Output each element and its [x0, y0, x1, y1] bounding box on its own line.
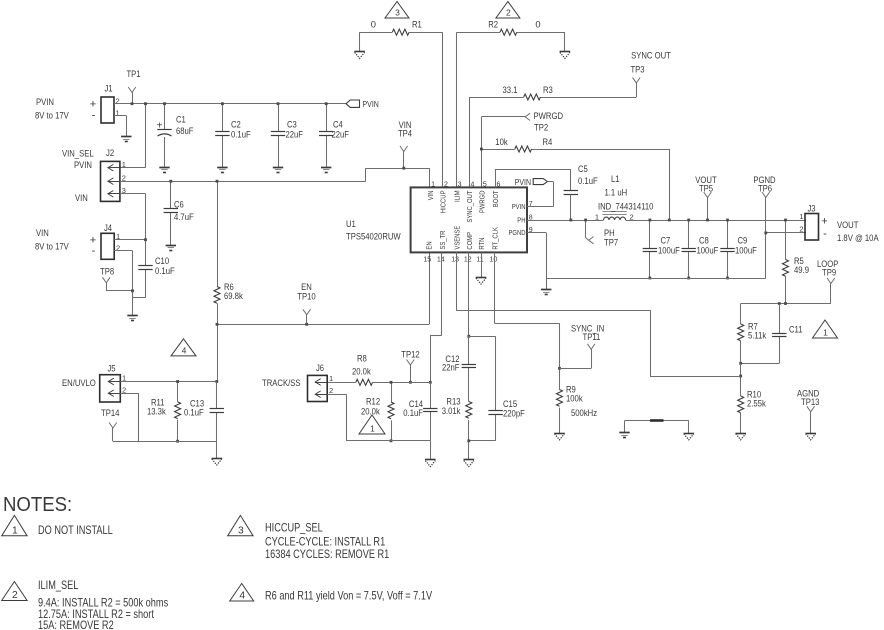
capacitor C15 branch — [469, 336, 496, 441]
svg-text:1.8V @ 10A: 1.8V @ 10A — [837, 232, 879, 243]
svg-text:+: + — [157, 120, 163, 131]
junction R12 bottom — [390, 439, 393, 442]
connector J5 box — [100, 375, 121, 402]
svg-text:1: 1 — [329, 374, 333, 383]
junction C4 — [325, 102, 328, 105]
svg-text:VSENSE: VSENSE — [452, 226, 461, 250]
svg-text:22uF: 22uF — [286, 129, 304, 140]
capacitor C8 plates — [682, 249, 696, 252]
wire R13/C15 bottom row to ground — [469, 441, 496, 460]
svg-text:J3: J3 — [807, 203, 815, 214]
svg-text:22uF: 22uF — [332, 129, 350, 140]
capacitor C3 plates — [271, 132, 285, 136]
svg-text:VIN: VIN — [426, 191, 435, 201]
svg-text:8V to 17V: 8V to 17V — [35, 241, 69, 252]
ground PGND — [541, 290, 551, 295]
svg-text:1: 1 — [431, 181, 435, 188]
svg-text:15: 15 — [423, 257, 431, 264]
ground under R10 — [735, 434, 746, 440]
svg-text:EN: EN — [425, 241, 434, 249]
wire R2 right to ground — [517, 32, 565, 51]
note triangle 4 — [230, 584, 254, 602]
capacitor C4 — [326, 104, 328, 167]
test point TP9 — [827, 278, 835, 304]
junction TP6/J3 pin2 — [764, 232, 767, 235]
test point TP7 — [586, 220, 594, 244]
svg-text:TP1: TP1 — [126, 68, 140, 79]
svg-text:6: 6 — [497, 181, 501, 188]
svg-text:14: 14 — [437, 257, 445, 264]
svg-text:13: 13 — [451, 257, 459, 264]
test point TP8 — [103, 277, 133, 291]
note triangle 3 — [228, 515, 253, 536]
junction C7 top — [649, 219, 652, 222]
svg-text:2: 2 — [12, 590, 18, 601]
svg-text:0: 0 — [371, 19, 376, 30]
wire U1 pin4 to R3 — [469, 97, 524, 187]
svg-text:HICCUP_SEL: HICCUP_SEL — [265, 521, 323, 535]
wire PVIN rail — [114, 103, 346, 105]
resistor R4 — [515, 146, 532, 152]
resistor R5 — [785, 220, 787, 260]
svg-text:-: - — [92, 245, 96, 257]
svg-text:TP9: TP9 — [822, 267, 836, 278]
junction R5 top — [784, 219, 787, 222]
ground under C6 — [166, 246, 176, 251]
svg-text:PVIN: PVIN — [512, 202, 526, 211]
svg-text:TP10: TP10 — [297, 291, 315, 302]
wire R3 to TP3 — [541, 83, 637, 98]
capacitor C7 — [649, 220, 651, 278]
svg-text:-: - — [823, 228, 827, 240]
svg-text:2: 2 — [506, 8, 511, 18]
svg-text:R8: R8 — [357, 353, 367, 364]
ground under R9 — [554, 434, 565, 440]
capacitor C14 — [430, 382, 432, 441]
svg-text:220pF: 220pF — [503, 408, 525, 419]
wire J2 pin1 to PVIN rail — [120, 104, 146, 168]
svg-text:7: 7 — [529, 201, 533, 208]
svg-text:0: 0 — [535, 19, 540, 30]
connector J2 — [101, 161, 120, 201]
ground under C3 — [273, 168, 283, 173]
test point TP13 — [807, 406, 815, 433]
svg-text:VIN: VIN — [36, 227, 49, 238]
svg-text:1: 1 — [370, 424, 375, 434]
junction TP11 — [558, 367, 561, 370]
svg-text:5.11k: 5.11k — [748, 330, 766, 341]
svg-text:TP14: TP14 — [101, 407, 119, 418]
resistor R7 body — [738, 324, 744, 341]
junction — [144, 102, 147, 105]
svg-text:EN/UVLO: EN/UVLO — [62, 377, 96, 388]
junction R4/VOUT — [668, 219, 671, 222]
U1 right pin numbers 7-9 — [529, 201, 533, 234]
wire J5 pin2 — [120, 393, 138, 441]
svg-text:HICCUP: HICCUP — [439, 190, 448, 213]
resistor R11 body — [175, 402, 181, 419]
svg-text:R4: R4 — [543, 136, 553, 147]
svg-text:0.1uF: 0.1uF — [578, 175, 598, 186]
net flag PVIN (top) — [346, 100, 360, 107]
junction C2 — [221, 102, 224, 105]
junction C11 top — [778, 302, 781, 305]
svg-text:C11: C11 — [789, 324, 803, 335]
svg-text:R6 and R11 yield Von = 7.5V, V: R6 and R11 yield Von = 7.5V, Voff = 7.1V — [265, 589, 432, 603]
wire R1 right to U1 pin2 — [409, 32, 442, 187]
svg-text:J4: J4 — [104, 222, 112, 233]
wire J6 pin2 — [327, 394, 346, 441]
svg-text:4: 4 — [239, 591, 245, 602]
junction TP10 — [305, 323, 308, 326]
svg-text:R1: R1 — [412, 19, 422, 30]
svg-text:RTN: RTN — [477, 238, 486, 250]
resistor R12 — [391, 382, 393, 402]
wire U1 pin10 RT_CLK — [494, 252, 559, 389]
capacitor C10 — [145, 269, 147, 297]
svg-text:2: 2 — [444, 181, 448, 188]
resistor R2 body — [500, 29, 517, 35]
svg-text:3.01k: 3.01k — [442, 405, 461, 416]
U1 bottom pin names — [425, 226, 500, 250]
svg-text:3: 3 — [238, 525, 244, 536]
capacitor C9 plates — [720, 249, 734, 252]
ground right of net tie — [684, 434, 695, 440]
capacitor C11 — [779, 304, 781, 364]
wire R7/C11 bottom row — [741, 363, 780, 365]
junction C7 bottom — [649, 277, 652, 280]
resistor R1 — [360, 32, 393, 34]
svg-text:0.1uF: 0.1uF — [184, 407, 204, 418]
svg-text:500kHz: 500kHz — [571, 407, 597, 418]
ground under J4 — [127, 316, 137, 321]
U1 top pin numbers 1-6 — [431, 181, 500, 188]
test point TP4 — [400, 146, 408, 168]
svg-text:PVIN: PVIN — [363, 99, 379, 109]
ground under J1 — [121, 137, 131, 142]
resistor R7 — [740, 304, 742, 325]
test point TP11 — [560, 344, 596, 369]
junction SS_TR/C14 — [429, 381, 432, 384]
svg-text:68uF: 68uF — [176, 125, 194, 136]
wire PVIN flag to pin7 — [527, 182, 554, 207]
junction R12 top — [390, 381, 393, 384]
svg-text:2: 2 — [116, 244, 120, 253]
wire track bottom row — [346, 441, 430, 460]
wire VIN rail to R6 — [217, 181, 219, 286]
svg-text:11: 11 — [476, 257, 483, 264]
svg-text:4.7uF: 4.7uF — [174, 211, 194, 222]
svg-text:33.1: 33.1 — [503, 84, 518, 95]
op-amp U1 TPS54020RUW box — [411, 187, 527, 252]
junction TP8 — [131, 289, 134, 292]
resistor R1 body — [392, 29, 409, 35]
capacitor C9 — [727, 220, 729, 278]
ground under C2 — [217, 168, 227, 173]
svg-text:TP11: TP11 — [583, 331, 601, 342]
ground under C13 — [212, 459, 223, 466]
svg-text:BOOT: BOOT — [491, 190, 500, 207]
wire U1 pin14 SS_TR — [430, 252, 442, 382]
junction R5 bottom — [784, 302, 787, 305]
wire divider chain — [740, 363, 742, 396]
svg-text:2: 2 — [329, 386, 333, 395]
net flag PVIN (at U1 pin7) — [533, 179, 547, 185]
svg-text:C5: C5 — [578, 163, 588, 174]
svg-text:22nF: 22nF — [442, 362, 460, 373]
junction TP5 — [706, 219, 709, 222]
svg-text:-: - — [92, 110, 96, 122]
capacitor C5 plates — [564, 191, 578, 195]
svg-text:100uF: 100uF — [735, 245, 757, 256]
test point TP3 — [633, 78, 641, 84]
svg-text:10k: 10k — [495, 136, 508, 147]
svg-text:3: 3 — [458, 181, 462, 188]
test point TP1 — [128, 87, 136, 104]
junction R11 top — [176, 380, 179, 383]
svg-text:L1: L1 — [611, 173, 620, 184]
capacitor C1 — [164, 104, 166, 167]
ground right of R2 — [560, 52, 571, 59]
junction EN rail — [216, 323, 219, 326]
connector J3 — [805, 214, 819, 241]
wire U1 pin13 VSENSE to divider — [456, 252, 741, 376]
svg-text:TPS54020RUW: TPS54020RUW — [346, 231, 401, 242]
resistor R13 — [466, 402, 472, 419]
svg-text:PVIN: PVIN — [515, 177, 531, 187]
wire J4 pin2 to ground — [114, 251, 145, 316]
svg-text:R2: R2 — [488, 19, 498, 30]
capacitor C6 plates — [164, 209, 178, 213]
svg-text:SYNC_OUT: SYNC_OUT — [465, 190, 474, 223]
svg-text:20.0k: 20.0k — [361, 406, 380, 417]
junction C5/PH — [569, 219, 572, 222]
svg-text:ILIM: ILIM — [452, 190, 461, 202]
svg-text:IND_744314110: IND_744314110 — [598, 201, 653, 212]
wire J1 pin1 to ground — [114, 116, 127, 137]
capacitor C2 — [222, 104, 224, 167]
capacitor C12 plates — [462, 365, 476, 368]
junction R7 bottom — [739, 362, 742, 365]
svg-text:COMP: COMP — [465, 232, 474, 250]
capacitor C1 plates — [157, 130, 171, 137]
wire VOUT rail (L1 to J3 pin1) — [626, 220, 806, 222]
ground RTN — [476, 278, 487, 285]
svg-text:1: 1 — [799, 212, 803, 221]
svg-text:J1: J1 — [104, 83, 112, 94]
capacitor C7 plates — [643, 249, 657, 252]
junction TP12 — [409, 381, 412, 384]
svg-text:TP5: TP5 — [699, 183, 713, 194]
wire U1 pin5 to TP2 — [481, 117, 525, 188]
svg-text:0.1uF: 0.1uF — [403, 407, 423, 418]
wire R6 bottom / EN net — [217, 303, 219, 381]
U1 bottom pin numbers 15-10 — [423, 257, 497, 264]
wire PH rail (U1 pin8 to L1) — [527, 220, 604, 222]
net tie AGND-PGND — [625, 421, 689, 434]
ground under C1 — [159, 168, 169, 173]
resistor R3 — [524, 94, 541, 100]
svg-text:C6: C6 — [174, 199, 184, 210]
resistor R8 body — [356, 379, 373, 385]
wire C5 bottom to PH rail — [570, 195, 572, 221]
capacitor C2 plates — [215, 132, 229, 136]
svg-text:2: 2 — [799, 225, 803, 234]
capacitor C3 — [278, 104, 280, 167]
svg-text:4: 4 — [182, 345, 187, 355]
junction R11 bottom — [176, 440, 179, 443]
svg-text:PWRGD: PWRGD — [534, 110, 564, 121]
resistor R10 — [738, 396, 744, 413]
junction C8 top — [687, 219, 690, 222]
svg-text:PVIN: PVIN — [74, 159, 92, 170]
wire PGND ground rail — [546, 278, 766, 280]
svg-text:TP13: TP13 — [801, 396, 819, 407]
junction C3 — [277, 102, 280, 105]
svg-text:NOTES:: NOTES: — [3, 494, 72, 516]
junction VSENSE tap — [739, 375, 742, 378]
svg-text:TP3: TP3 — [630, 64, 644, 75]
svg-text:4: 4 — [471, 181, 475, 188]
ground left of net tie — [619, 433, 629, 438]
svg-text:RT_CLK: RT_CLK — [491, 227, 500, 250]
test point TP14 — [109, 423, 117, 442]
capacitor C15 plates — [488, 411, 502, 415]
svg-text:20.0k: 20.0k — [352, 366, 371, 377]
svg-text:100uF: 100uF — [658, 245, 680, 256]
wire U1 pin11 RTN to ground — [481, 252, 483, 277]
svg-text:15A: REMOVE R2: 15A: REMOVE R2 — [38, 618, 114, 630]
junction C1 — [163, 102, 166, 105]
wire J3 pin2 row — [766, 232, 806, 234]
junction C9 bottom — [726, 277, 729, 280]
wire U1 pin6 to C5 — [495, 169, 571, 191]
svg-text:J6: J6 — [316, 362, 324, 373]
svg-text:2: 2 — [630, 212, 634, 221]
test point TP5 — [704, 192, 712, 220]
resistor R5 body — [783, 260, 789, 277]
test point TP10 — [303, 309, 311, 324]
svg-text:12: 12 — [464, 257, 472, 264]
svg-text:R3: R3 — [543, 84, 553, 95]
svg-text:PGND: PGND — [509, 228, 526, 237]
junction R4 — [480, 148, 483, 151]
U1 top pin names — [426, 190, 500, 223]
svg-text:VIN_SEL: VIN_SEL — [62, 148, 94, 159]
wire R4 right to VOUT rail — [532, 149, 670, 220]
junction TP7 — [584, 219, 587, 222]
junction J4 pin1 / VIN net — [144, 238, 147, 241]
wire J4 pin1 — [114, 239, 145, 241]
capacitor C11 plates — [772, 334, 786, 337]
callout triangle 1 (right) — [813, 320, 838, 338]
capacitor C12 — [468, 336, 470, 401]
svg-text:TP2: TP2 — [534, 122, 548, 133]
svg-text:0.1uF: 0.1uF — [155, 265, 175, 276]
connector J6 box — [308, 375, 328, 401]
svg-text:2: 2 — [122, 173, 126, 182]
svg-text:C1: C1 — [176, 114, 186, 125]
svg-text:8V to 17V: 8V to 17V — [35, 110, 69, 121]
wire EN/UVLO bottom row — [113, 441, 217, 458]
junction TP1/rail — [131, 102, 134, 105]
svg-text:10: 10 — [490, 257, 498, 264]
svg-text:U1: U1 — [346, 218, 356, 229]
connector J4 — [101, 233, 114, 259]
svg-text:+: + — [821, 216, 827, 228]
svg-text:TP7: TP7 — [604, 237, 618, 248]
capacitor C13 — [216, 382, 218, 442]
svg-text:3: 3 — [395, 8, 400, 18]
wire J5 pin1 row — [120, 381, 217, 383]
svg-text:100k: 100k — [566, 393, 583, 404]
svg-text:PWRGD: PWRGD — [478, 191, 487, 214]
U1 right pin names — [509, 202, 526, 237]
svg-text:13.3k: 13.3k — [147, 406, 166, 417]
resistor R12 body — [388, 402, 394, 419]
svg-text:TP4: TP4 — [398, 128, 412, 139]
svg-text:1: 1 — [823, 328, 828, 338]
test point TP2 — [525, 113, 530, 120]
ground under C14 — [425, 460, 436, 467]
svg-text:TRACK/SS: TRACK/SS — [262, 377, 301, 388]
svg-text:5: 5 — [483, 181, 487, 188]
resistor R6 — [214, 287, 220, 304]
svg-text:100uF: 100uF — [697, 245, 719, 256]
svg-text:1: 1 — [12, 525, 18, 536]
junction C8 bottom — [687, 277, 690, 280]
capacitor C4 plates — [319, 132, 333, 136]
wire VIN rail (J2 pin2 to U1 pin1) — [120, 168, 430, 187]
svg-text:49.9: 49.9 — [794, 264, 809, 275]
svg-text:VOUT: VOUT — [837, 219, 859, 230]
capacitor C13 plates — [210, 409, 224, 413]
callout triangle 2 — [496, 2, 520, 19]
junction TP4 — [402, 167, 405, 170]
capacitor C14 plates — [423, 409, 437, 412]
junction EN/C13 — [215, 380, 218, 383]
svg-text:0.1uF: 0.1uF — [231, 129, 251, 140]
svg-text:VIN: VIN — [75, 192, 88, 203]
svg-text:TP12: TP12 — [401, 349, 419, 360]
junction COMP — [467, 335, 470, 338]
junction C6 — [169, 180, 172, 183]
junction C9 top — [726, 219, 729, 222]
wire U1 pin9 to ground — [527, 233, 547, 290]
svg-text:ILIM_SEL: ILIM_SEL — [38, 578, 79, 592]
svg-text:9: 9 — [529, 227, 533, 234]
wire PWRGD to R4 — [481, 149, 514, 151]
callout triangle 1 (track) — [359, 415, 385, 434]
note triangle 2 — [2, 582, 27, 602]
capacitor C10 plates — [138, 266, 152, 270]
wire EN rail to U1 pin15 — [217, 252, 430, 324]
ground under R13/C15 — [464, 460, 475, 467]
callout triangle 4 — [171, 339, 196, 356]
ground under TP13 — [805, 434, 816, 440]
connector J1 — [101, 97, 114, 123]
svg-text:1: 1 — [595, 212, 599, 221]
svg-text:1.1 uH: 1.1 uH — [605, 187, 628, 198]
callout triangle 3 — [385, 2, 409, 19]
svg-text:J2: J2 — [106, 147, 114, 158]
wire R2 left to U1 pin3 — [456, 32, 458, 187]
resistor R11 — [177, 382, 179, 402]
svg-text:16384 CYCLES: REMOVE R1: 16384 CYCLES: REMOVE R1 — [265, 547, 389, 561]
resistor R8 — [327, 382, 356, 384]
svg-text:2.55k: 2.55k — [747, 398, 766, 409]
inductor L1 — [603, 212, 627, 221]
